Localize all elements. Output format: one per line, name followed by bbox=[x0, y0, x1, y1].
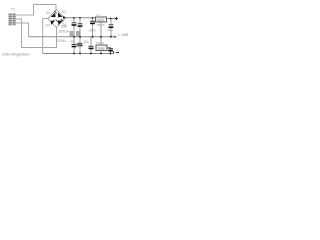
svg-text:T1: T1 bbox=[11, 7, 15, 11]
svg-text:2x5v klingeltrafo: 2x5v klingeltrafo bbox=[2, 52, 29, 56]
svg-text:7905: 7905 bbox=[97, 47, 104, 51]
svg-text:100n: 100n bbox=[89, 28, 96, 32]
svg-text:D2: D2 bbox=[62, 10, 66, 14]
svg-text:D3: D3 bbox=[46, 24, 50, 28]
svg-text:78L05: 78L05 bbox=[96, 23, 105, 27]
svg-text:+: + bbox=[106, 20, 108, 24]
svg-text:D1: D1 bbox=[46, 11, 50, 15]
svg-text:+: + bbox=[70, 18, 72, 22]
svg-text:IC1: IC1 bbox=[96, 13, 101, 17]
svg-text:7805: 7805 bbox=[97, 18, 104, 22]
svg-text:2200u: 2200u bbox=[57, 39, 66, 43]
svg-text:2200uF: 2200uF bbox=[58, 29, 69, 33]
svg-text:79L05: 79L05 bbox=[96, 41, 105, 45]
svg-text:+: + bbox=[76, 19, 78, 23]
svg-text:47u: 47u bbox=[70, 39, 75, 43]
svg-text:L 0dB: L 0dB bbox=[118, 33, 128, 37]
svg-text:10u: 10u bbox=[107, 28, 113, 32]
svg-text:10u: 10u bbox=[84, 40, 90, 44]
